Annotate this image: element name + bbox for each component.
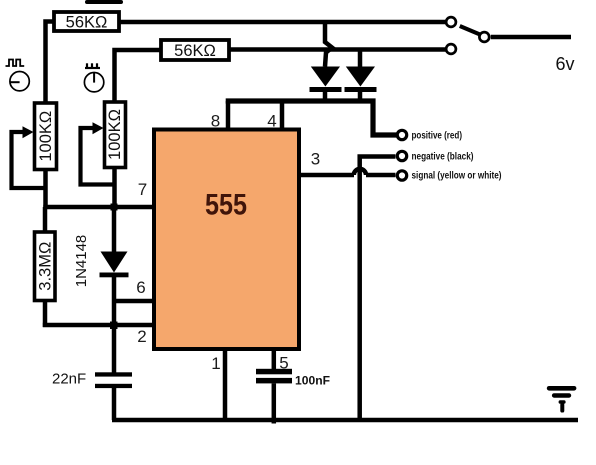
icon: pulse-train (duty) [85, 63, 100, 68]
terminal: positive (red) [397, 129, 462, 141]
svg-text:3.3MΩ: 3.3MΩ [36, 242, 54, 291]
svg-text:6: 6 [136, 278, 145, 297]
potentiometer RV1 100K body [35, 103, 57, 170]
potentiometer RV2 wiper arm [81, 122, 115, 184]
svg-text:positive (red): positive (red) [412, 129, 463, 141]
potentiometer RV2 100K body [105, 102, 126, 168]
svg-text:56KΩ: 56KΩ [66, 14, 108, 32]
wire: R3 bottom lead [43, 300, 48, 327]
terminal: negative (black) [360, 150, 474, 420]
wire: V+ top rail (R1 right to switch top contact) [120, 20, 446, 25]
icon: square-wave (frequency) [6, 60, 25, 67]
svg-text:100nF: 100nF [295, 376, 330, 388]
wire: switch common to 6v [491, 35, 571, 40]
wire: R1 left lead down to RV1 top [46, 22, 54, 103]
diode D2 (left) anode jog from top rail [310, 22, 342, 101]
terminal: signal (yellow or white) [397, 170, 501, 182]
svg-text:1N4148: 1N4148 [73, 235, 90, 288]
wire: pin8/pin4 bridge to positive terminal [226, 101, 397, 135]
wire: R2 left lead down to RV2 top [115, 50, 162, 101]
svg-text:56KΩ: 56KΩ [174, 42, 216, 60]
resistor R3 3.3M [35, 232, 56, 301]
ground [547, 386, 577, 413]
potentiometer RV1 wiper arm [12, 126, 46, 188]
resistor R1 56K [54, 12, 119, 32]
wire: R3 top lead [43, 207, 48, 232]
switch SW1 common contact [479, 32, 489, 42]
svg-text:100KΩ: 100KΩ [37, 111, 55, 162]
junction: pin7 / diode node [111, 204, 118, 211]
wire: pin 7 net [43, 205, 153, 210]
diode D3 (right) from second rail [345, 50, 377, 102]
wire: pin 2 net [43, 323, 153, 328]
svg-text:22nF: 22nF [52, 371, 86, 388]
capacitor C1 22nF [95, 372, 132, 420]
switch SW1 lever [460, 26, 480, 35]
resistor R2 56K [161, 40, 229, 60]
icon: dial knob 2 [84, 72, 103, 92]
svg-text:555: 555 [205, 189, 247, 222]
svg-text:1: 1 [211, 354, 220, 373]
icon: dial knob 1 [10, 72, 30, 91]
svg-text:2: 2 [137, 327, 146, 346]
wire: pin 6 net [112, 299, 153, 304]
svg-text:8: 8 [211, 112, 220, 131]
svg-text:7: 7 [138, 180, 147, 199]
svg-text:100KΩ: 100KΩ [106, 109, 124, 160]
capacitor C2 100nF [256, 350, 292, 424]
svg-text:signal (yellow or white): signal (yellow or white) [412, 170, 502, 182]
switch SW1 top contact [446, 17, 456, 27]
svg-text:6v: 6v [555, 54, 574, 74]
wire: pin 1 lead [223, 350, 228, 420]
diode D1 1N4148 [100, 205, 129, 373]
svg-text:3: 3 [311, 150, 320, 169]
switch SW1 bottom contact [446, 44, 456, 54]
wire: RV1 bottom lead [43, 169, 48, 209]
svg-text:negative (black): negative (black) [412, 150, 474, 162]
svg-text:4: 4 [267, 112, 276, 131]
cropped mark top-left [85, 0, 123, 4]
wire: second rail (R2 right to switch bottom contact) [230, 47, 446, 52]
wire: ground rail [112, 418, 578, 423]
junction: pin2 / diode node [110, 322, 118, 330]
wire: pin 3 to signal terminal (with hop) [299, 169, 396, 175]
IC U1 555 [154, 130, 299, 350]
wire: RV2 bottom lead [112, 167, 117, 209]
